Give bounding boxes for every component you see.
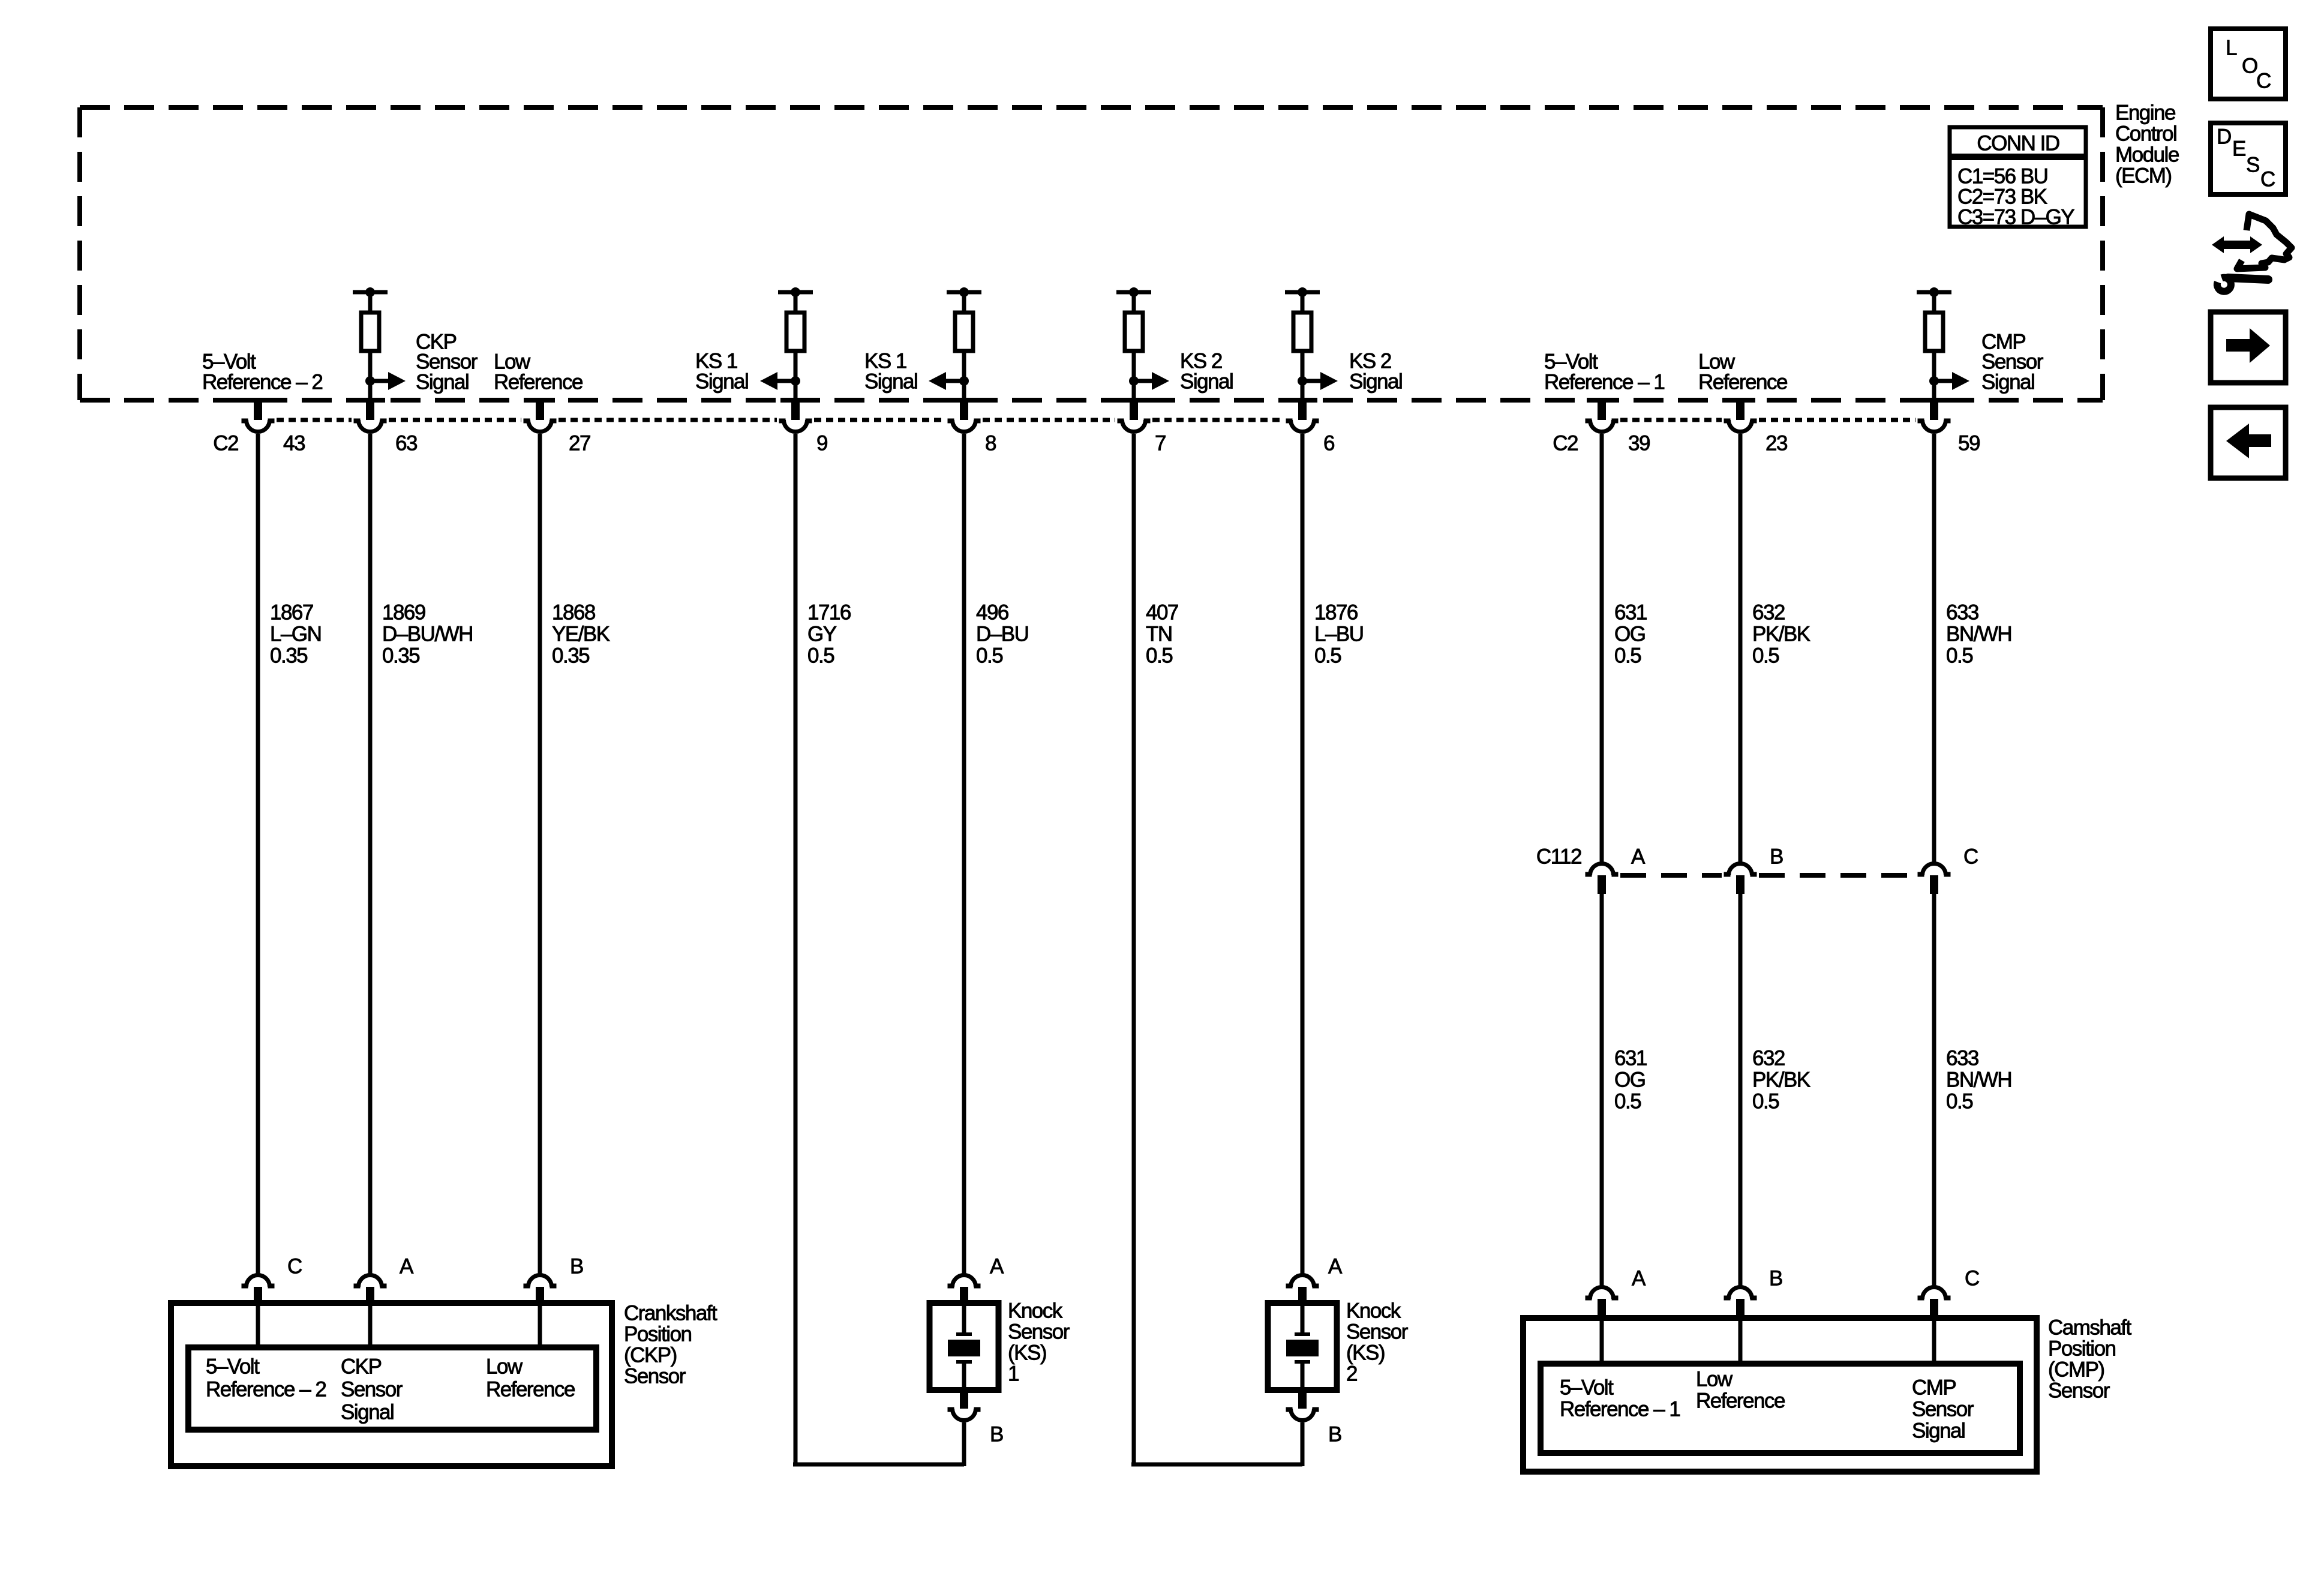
svg-text:C112: C112 (1536, 845, 1581, 869)
CMP sensor terminal C (1918, 1287, 1951, 1320)
knock sensor KS 1 box (930, 1303, 999, 1390)
wire label 632 PK/BK 0.5 (below C112) (1752, 1047, 1810, 1113)
svg-text:Knock: Knock (1008, 1299, 1063, 1323)
svg-text:Position: Position (624, 1323, 692, 1346)
svg-text:Reference: Reference (494, 371, 582, 394)
label Low Reference (pin 23) (1698, 350, 1787, 394)
wire 1876 L-BU (pin 6 to KS2 A) (1301, 434, 1305, 1274)
svg-text:E: E (2232, 137, 2245, 161)
svg-text:Control: Control (2115, 122, 2176, 146)
svg-text:Low: Low (1696, 1368, 1733, 1391)
icon arrow left box (2211, 407, 2286, 478)
svg-text:Signal: Signal (1349, 370, 1402, 394)
CKP sensor terminal C (242, 1275, 275, 1306)
svg-text:0.5: 0.5 (1614, 644, 1641, 668)
CMP inner label Low Reference (1696, 1368, 1785, 1413)
wire 407 TN (pin 7 to KS2 B loop) (1131, 434, 1302, 1466)
connector C2 dotted line (right group) (1620, 418, 1915, 422)
svg-text:Signal: Signal (416, 371, 469, 394)
svg-text:C3=73 D–GY: C3=73 D–GY (1957, 206, 2074, 229)
wire 633 BN/WH lower (C112 C to CMP C) (1932, 891, 1936, 1286)
svg-text:YE/BK: YE/BK (552, 623, 610, 646)
knock sensor KS 2 box (1268, 1303, 1337, 1390)
CKP inner label Low Reference (486, 1355, 575, 1401)
ECM module boundary (dashed box) (80, 107, 2103, 400)
ECM connector C2 terminal at x=1890 (1118, 398, 1151, 432)
svg-text:632: 632 (1752, 601, 1785, 625)
svg-text:OG: OG (1614, 623, 1645, 646)
Crankshaft Position (CKP) Sensor label (624, 1302, 717, 1388)
wire 633 BN/WH upper (pin 59 to C112 C) (1932, 434, 1936, 864)
Knock Sensor (KS) 2 label (1346, 1299, 1409, 1386)
ECM connector C2 terminal at x=1607 (948, 398, 981, 432)
svg-text:5–Volt: 5–Volt (206, 1355, 260, 1379)
wire 1869 D-BU/WH (pin 63 to CKP A) (368, 434, 373, 1274)
svg-text:TN: TN (1146, 623, 1172, 646)
svg-text:C: C (1965, 1267, 1979, 1290)
wire 631 OG upper (pin 39 to C112 A) (1600, 434, 1604, 864)
ECM label (2115, 101, 2179, 188)
KS1 terminal A (948, 1275, 981, 1306)
wire label 1867 L–GN 0.35 (270, 601, 321, 668)
svg-text:631: 631 (1614, 1047, 1647, 1070)
wire label 1716 GY 0.5 (807, 601, 851, 668)
svg-text:Reference – 1: Reference – 1 (1560, 1398, 1680, 1421)
CONN ID table (1950, 127, 2086, 229)
svg-text:631: 631 (1614, 601, 1647, 625)
svg-text:Signal: Signal (864, 370, 917, 394)
ECM connector C2 terminal at x=617 (354, 398, 387, 432)
svg-text:D: D (2217, 125, 2231, 149)
resistor + CMP Sensor Signal arrow (pin 59) (1917, 287, 1969, 400)
wire label 496 D–BU 0.5 (976, 601, 1028, 668)
CMP internal wires (1602, 1318, 1934, 1366)
svg-text:(KS): (KS) (1008, 1341, 1046, 1365)
svg-text:Signal: Signal (341, 1401, 394, 1424)
CKP inner label CKP Sensor Signal (341, 1355, 403, 1424)
label CKP Sensor Signal (416, 331, 478, 394)
svg-text:0.35: 0.35 (270, 644, 307, 668)
svg-text:L–BU: L–BU (1314, 623, 1364, 646)
svg-text:1: 1 (1008, 1362, 1019, 1386)
CMP sensor terminal A (1586, 1287, 1619, 1320)
KS2 piezo element (capacitor) (1286, 1303, 1319, 1390)
CKP sensor terminal A (354, 1275, 387, 1306)
svg-text:BN/WH: BN/WH (1946, 1068, 2011, 1092)
svg-text:OG: OG (1614, 1068, 1645, 1092)
ECM connector C2 terminal at x=430 (242, 398, 275, 432)
Knock Sensor (KS) 1 label (1008, 1299, 1070, 1386)
CKP inner label 5-Volt Reference - 2 (206, 1355, 326, 1401)
Camshaft Position (CMP) Sensor label (2048, 1316, 2132, 1403)
wire label 632 PK/BK 0.5 (1752, 601, 1810, 668)
KS1 piezo element (capacitor) (948, 1303, 980, 1390)
svg-text:Reference – 2: Reference – 2 (202, 371, 322, 394)
wire label 633 BN/WH 0.5 (below C112) (1946, 1047, 2011, 1113)
svg-text:D–BU/WH: D–BU/WH (382, 623, 473, 646)
svg-text:Knock: Knock (1346, 1299, 1401, 1323)
resistor + KS 1 Signal arrow (pin 9) (760, 287, 813, 400)
svg-text:A: A (400, 1255, 414, 1278)
wire 631 OG lower (C112 A to CMP A) (1600, 891, 1604, 1286)
ECM connector C2 terminal at x=900 (524, 398, 557, 432)
label KS 2 Signal (pin 7) (1180, 350, 1233, 394)
KS1 terminal B (948, 1390, 981, 1421)
C112 terminal C (1918, 864, 1951, 894)
svg-text:496: 496 (976, 601, 1008, 625)
connector C2 dotted line (left group) (277, 418, 1284, 422)
KS1 wire below B (962, 1422, 966, 1464)
icon LOC box (2211, 29, 2286, 99)
KS2 wire below B (1301, 1422, 1305, 1464)
svg-text:0.5: 0.5 (807, 644, 834, 668)
wire label 633 BN/WH 0.5 (1946, 601, 2011, 668)
C112 terminal B (1724, 864, 1757, 894)
svg-text:L–GN: L–GN (270, 623, 321, 646)
KS2 terminal B (1286, 1390, 1319, 1421)
svg-text:59: 59 (1958, 432, 1980, 455)
resistor + KS 1 Signal arrow (pin 8) (929, 287, 981, 400)
label KS 2 Signal (pin 6) (1349, 350, 1402, 394)
wire label 407 TN 0.5 (1146, 601, 1178, 668)
svg-text:D–BU: D–BU (976, 623, 1028, 646)
svg-text:(CKP): (CKP) (624, 1344, 677, 1367)
svg-text:PK/BK: PK/BK (1752, 1068, 1810, 1092)
wire label 631 OG 0.5 (below C112) (1614, 1047, 1647, 1113)
wire label 631 OG 0.5 (1614, 601, 1647, 668)
svg-text:B: B (570, 1255, 583, 1278)
svg-text:Sensor: Sensor (1346, 1320, 1409, 1344)
svg-text:0.5: 0.5 (1752, 644, 1779, 668)
svg-text:B: B (1769, 1267, 1782, 1290)
CKP sensor inner box (188, 1347, 596, 1430)
ECM connector C2 terminal at x=3224 (1918, 398, 1951, 432)
resistor + CKP Sensor Signal arrow (pin 63) (353, 287, 406, 400)
svg-text:Reference – 2: Reference – 2 (206, 1378, 326, 1401)
svg-text:Sensor: Sensor (1008, 1320, 1070, 1344)
svg-text:1869: 1869 (382, 601, 425, 625)
label KS 1 Signal (pin 9) (695, 350, 748, 394)
svg-text:C2: C2 (213, 432, 238, 455)
svg-text:Camshaft: Camshaft (2048, 1316, 2132, 1340)
svg-text:0.5: 0.5 (976, 644, 1002, 668)
svg-text:0.5: 0.5 (1946, 1090, 1972, 1113)
CKP sensor outer box (171, 1303, 612, 1466)
svg-text:Reference: Reference (1698, 371, 1787, 394)
svg-text:Signal: Signal (695, 370, 748, 394)
svg-text:Sensor: Sensor (1912, 1398, 1974, 1421)
svg-text:C: C (287, 1255, 302, 1278)
C112 dashed line (1620, 873, 1915, 878)
svg-text:CMP: CMP (1912, 1376, 1956, 1400)
svg-text:A: A (1328, 1255, 1343, 1278)
svg-text:C2: C2 (1553, 432, 1578, 455)
svg-text:0.35: 0.35 (552, 644, 589, 668)
svg-text:1876: 1876 (1314, 601, 1358, 625)
svg-text:Reference: Reference (486, 1378, 575, 1401)
svg-text:C: C (1963, 845, 1978, 869)
label Low Reference (pin 27) (494, 350, 582, 394)
wire 1868 YE/BK (pin 27 to CKP B) (538, 434, 542, 1274)
label CMP Sensor Signal (1981, 331, 2044, 394)
svg-text:63: 63 (395, 432, 417, 455)
wire 1867 L-GN (pin 43 to CKP C) (256, 434, 260, 1274)
label 5-Volt Reference - 1 (1544, 350, 1664, 394)
svg-text:CKP: CKP (341, 1355, 382, 1379)
CMP sensor outer box (1523, 1318, 2037, 1472)
svg-text:0.5: 0.5 (1614, 1090, 1641, 1113)
svg-text:Signal: Signal (1180, 370, 1233, 394)
svg-text:B: B (1328, 1423, 1341, 1446)
ECM connector C2 terminal at x=2670 (1586, 398, 1619, 432)
C112 terminal A (1586, 864, 1619, 894)
svg-text:6: 6 (1323, 432, 1334, 455)
svg-text:L: L (2226, 37, 2237, 60)
svg-text:Signal: Signal (1912, 1419, 1965, 1443)
label 5-Volt Reference - 2 (202, 350, 322, 394)
svg-text:2: 2 (1346, 1362, 1357, 1386)
CKP sensor terminal B (524, 1275, 557, 1306)
ECM connector C2 terminal at x=2901 (1724, 398, 1757, 432)
svg-text:0.5: 0.5 (1752, 1090, 1779, 1113)
svg-text:1867: 1867 (270, 601, 313, 625)
svg-text:O: O (2242, 55, 2257, 78)
svg-text:Engine: Engine (2115, 101, 2175, 125)
svg-text:1716: 1716 (807, 601, 851, 625)
wire label 1876 L–BU 0.5 (1314, 601, 1364, 668)
svg-text:Reference – 1: Reference – 1 (1544, 371, 1664, 394)
svg-text:CONN ID: CONN ID (1977, 132, 2059, 155)
svg-text:633: 633 (1946, 1047, 1978, 1070)
svg-text:9: 9 (816, 432, 827, 455)
svg-text:1868: 1868 (552, 601, 595, 625)
svg-text:B: B (990, 1423, 1003, 1446)
CMP sensor terminal B (1724, 1287, 1757, 1320)
svg-text:Sensor: Sensor (341, 1378, 403, 1401)
svg-text:407: 407 (1146, 601, 1178, 625)
svg-text:Reference: Reference (1696, 1389, 1785, 1413)
CKP internal wires (258, 1303, 540, 1350)
wire 632 PK/BK lower (C112 B to CMP B) (1739, 891, 1743, 1286)
KS2 terminal A (1286, 1275, 1319, 1306)
svg-text:BN/WH: BN/WH (1946, 623, 2011, 646)
svg-text:C: C (2260, 168, 2275, 191)
svg-text:0.5: 0.5 (1946, 644, 1972, 668)
svg-text:Position: Position (2048, 1337, 2116, 1361)
svg-text:S: S (2246, 154, 2259, 177)
svg-text:Crankshaft: Crankshaft (624, 1302, 717, 1325)
svg-text:5–Volt: 5–Volt (1560, 1376, 1614, 1400)
svg-text:27: 27 (569, 432, 590, 455)
svg-text:B: B (1770, 845, 1783, 869)
wire 632 PK/BK upper (pin 23 to C112 B) (1739, 434, 1743, 864)
svg-text:633: 633 (1946, 601, 1978, 625)
svg-text:0.5: 0.5 (1314, 644, 1341, 668)
svg-text:Sensor: Sensor (624, 1365, 686, 1388)
wire 496 D-BU (pin 8 to KS1 A) (962, 434, 966, 1274)
svg-text:GY: GY (807, 623, 837, 646)
svg-text:Low: Low (486, 1355, 523, 1379)
wire label 1868 YE/BK 0.35 (552, 601, 610, 668)
svg-text:Signal: Signal (1981, 371, 2034, 394)
svg-text:7: 7 (1155, 432, 1166, 455)
ECM connector C2 terminal at x=1326 (779, 398, 812, 432)
svg-text:23: 23 (1765, 432, 1787, 455)
resistor + KS 2 Signal arrow (pin 6) (1285, 287, 1338, 400)
svg-text:(CMP): (CMP) (2048, 1358, 2104, 1382)
svg-text:0.35: 0.35 (382, 644, 419, 668)
svg-text:0.5: 0.5 (1146, 644, 1172, 668)
svg-text:8: 8 (985, 432, 996, 455)
CMP inner label 5-Volt Reference - 1 (1560, 1376, 1680, 1421)
svg-text:A: A (1631, 845, 1646, 869)
svg-text:A: A (1632, 1267, 1646, 1290)
wire label 1869 D–BU/WH 0.35 (382, 601, 473, 668)
resistor + KS 2 Signal arrow (pin 7) (1116, 287, 1169, 400)
wire 1716 GY (pin 9 to KS1 B loop) (793, 434, 964, 1466)
svg-text:632: 632 (1752, 1047, 1785, 1070)
icon arrow right box (2211, 312, 2286, 383)
svg-text:(ECM): (ECM) (2115, 164, 2172, 188)
svg-text:39: 39 (1628, 432, 1650, 455)
svg-text:Module: Module (2115, 143, 2179, 167)
CMP sensor inner box (1541, 1364, 2020, 1453)
icon vehicle diagnostic (double arrow, outline, wrench) (2212, 214, 2292, 292)
CMP inner label CMP Sensor Signal (1912, 1376, 1974, 1443)
svg-text:C: C (2256, 70, 2271, 93)
svg-text:PK/BK: PK/BK (1752, 623, 1810, 646)
svg-text:43: 43 (283, 432, 305, 455)
label KS 1 Signal (pin 8) (864, 350, 917, 394)
ECM connector C2 terminal at x=2171 (1286, 398, 1319, 432)
svg-text:A: A (990, 1255, 1004, 1278)
svg-text:(KS): (KS) (1346, 1341, 1385, 1365)
icon DESC box (2211, 123, 2286, 194)
svg-text:Sensor: Sensor (2048, 1379, 2110, 1403)
